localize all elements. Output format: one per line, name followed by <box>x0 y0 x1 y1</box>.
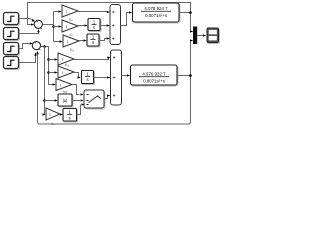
arrow branch K6 <box>53 83 56 85</box>
sum S1 <box>34 20 42 28</box>
wire B1 to A1 <box>100 25 107 27</box>
step source STEP1 <box>4 13 20 26</box>
svg-text:|u|: |u| <box>63 98 68 103</box>
wire branch K3 <box>54 41 60 43</box>
wire K2 to B1 <box>78 25 85 27</box>
svg-text:0.8071s²+s: 0.8071s²+s <box>143 79 166 84</box>
integrator B3 <box>82 71 95 85</box>
node dot ch2 left <box>43 45 46 48</box>
wire B3 to A2 <box>94 77 108 79</box>
wire K3 to B2 <box>79 40 84 42</box>
switch SW1 <box>84 90 105 109</box>
svg-text:4.078 924 7: 4.078 924 7 <box>144 6 168 11</box>
arrow into mux in1 <box>190 30 193 32</box>
wire branch K1 <box>54 11 59 13</box>
svg-text:1: 1 <box>66 25 68 29</box>
wire K5 to B3 <box>74 73 79 78</box>
step source STEP3 <box>4 43 20 56</box>
wire TF2 to node N2 <box>177 75 191 77</box>
svg-text:Kp: Kp <box>69 18 73 22</box>
wire feedback ch1 top <box>28 3 191 32</box>
gain K5 <box>58 66 74 78</box>
wire A2 to TF2 <box>122 75 128 77</box>
gain K1 <box>62 5 78 17</box>
wire branch K2 <box>54 26 59 28</box>
svg-text:s: s <box>86 77 88 82</box>
wire K6 to SW1 in1 <box>72 85 80 95</box>
svg-text:1: 1 <box>62 58 64 62</box>
step source STEP4 <box>4 57 20 70</box>
svg-text:1: 1 <box>49 113 51 117</box>
gain K4 <box>58 53 74 65</box>
svg-text:0.0071s²+s: 0.0071s²+s <box>145 13 168 18</box>
gain K6 <box>56 79 72 91</box>
arrow into mux in2 <box>190 39 193 41</box>
wire SW1 to A2 <box>104 96 108 99</box>
svg-text:1: 1 <box>62 71 64 75</box>
node dot K5 <box>47 71 50 74</box>
wire ch2 distribution vertical left <box>44 47 46 115</box>
arrow feedback into sum S1 <box>31 23 34 25</box>
wire S2 out <box>41 46 49 48</box>
transfer fcn TF1 <box>133 3 181 23</box>
wire branch abs U1 <box>45 100 55 102</box>
wire ch1 distribution vertical <box>53 12 55 42</box>
integrator B1 <box>88 19 101 32</box>
wire B2 to A1 <box>99 39 107 41</box>
derivative B2 <box>87 34 100 47</box>
svg-text:1: 1 <box>60 84 62 88</box>
wire branch K5 <box>49 72 55 74</box>
transfer fcn TF2 <box>131 65 179 86</box>
gain K7 <box>46 108 60 120</box>
wire mux to scope <box>197 35 203 37</box>
step source STEP2 <box>4 28 20 41</box>
wire A1 to TF1 <box>121 13 130 26</box>
node N2 <box>189 74 192 77</box>
svg-text:Ka: Ka <box>65 63 69 67</box>
add block A2 <box>111 50 122 105</box>
wire feedback ch2 bottom run <box>38 41 191 125</box>
wire STEP2 to sum S1 bottom <box>19 31 39 34</box>
wire TF1 to node N1 <box>179 12 191 14</box>
svg-text:Ks: Ks <box>51 122 55 126</box>
wire branch K4 <box>49 59 55 61</box>
svg-text:1: 1 <box>66 10 68 14</box>
sum S2 <box>32 42 40 50</box>
node dot K4 <box>47 58 50 61</box>
svg-text:|u|: |u| <box>63 90 67 94</box>
wire S1 out <box>43 24 54 26</box>
arrow into K7 <box>43 113 46 115</box>
wire STEP3 to sum S2 <box>19 44 30 49</box>
wire STEP1 to sum S1 <box>19 19 32 20</box>
svg-text:4.976 932 7: 4.976 932 7 <box>142 71 166 76</box>
wire U1 to SW1 in2 <box>72 100 80 102</box>
gain K2 <box>62 20 78 32</box>
node N1 <box>189 11 192 14</box>
svg-text:s: s <box>92 40 94 45</box>
integrator B4 <box>63 109 78 123</box>
gain K3 <box>63 35 79 47</box>
wire ch2 distribution vertical right <box>49 47 54 85</box>
svg-text:Ki: Ki <box>70 33 73 37</box>
svg-text:1: 1 <box>67 40 69 44</box>
abs U1 <box>58 94 73 107</box>
wire STEP4 to sum S2 bottom <box>19 56 36 63</box>
node dot abs <box>43 99 46 102</box>
scope SC1 <box>207 28 220 44</box>
wire B4 to SW1 in3 <box>77 105 81 115</box>
svg-text:s: s <box>93 25 95 30</box>
add block A1 <box>110 5 121 45</box>
svg-text:Kd: Kd <box>70 48 74 52</box>
wire K4 to A2 <box>74 58 109 60</box>
arrow feedback into sum S2 bottom <box>36 51 38 54</box>
wire K7 to B4 <box>59 114 62 116</box>
svg-text:s: s <box>69 115 71 120</box>
mux M1 <box>193 27 197 45</box>
node dot ch1 <box>52 25 55 28</box>
wire K1 to A1 <box>78 11 107 13</box>
